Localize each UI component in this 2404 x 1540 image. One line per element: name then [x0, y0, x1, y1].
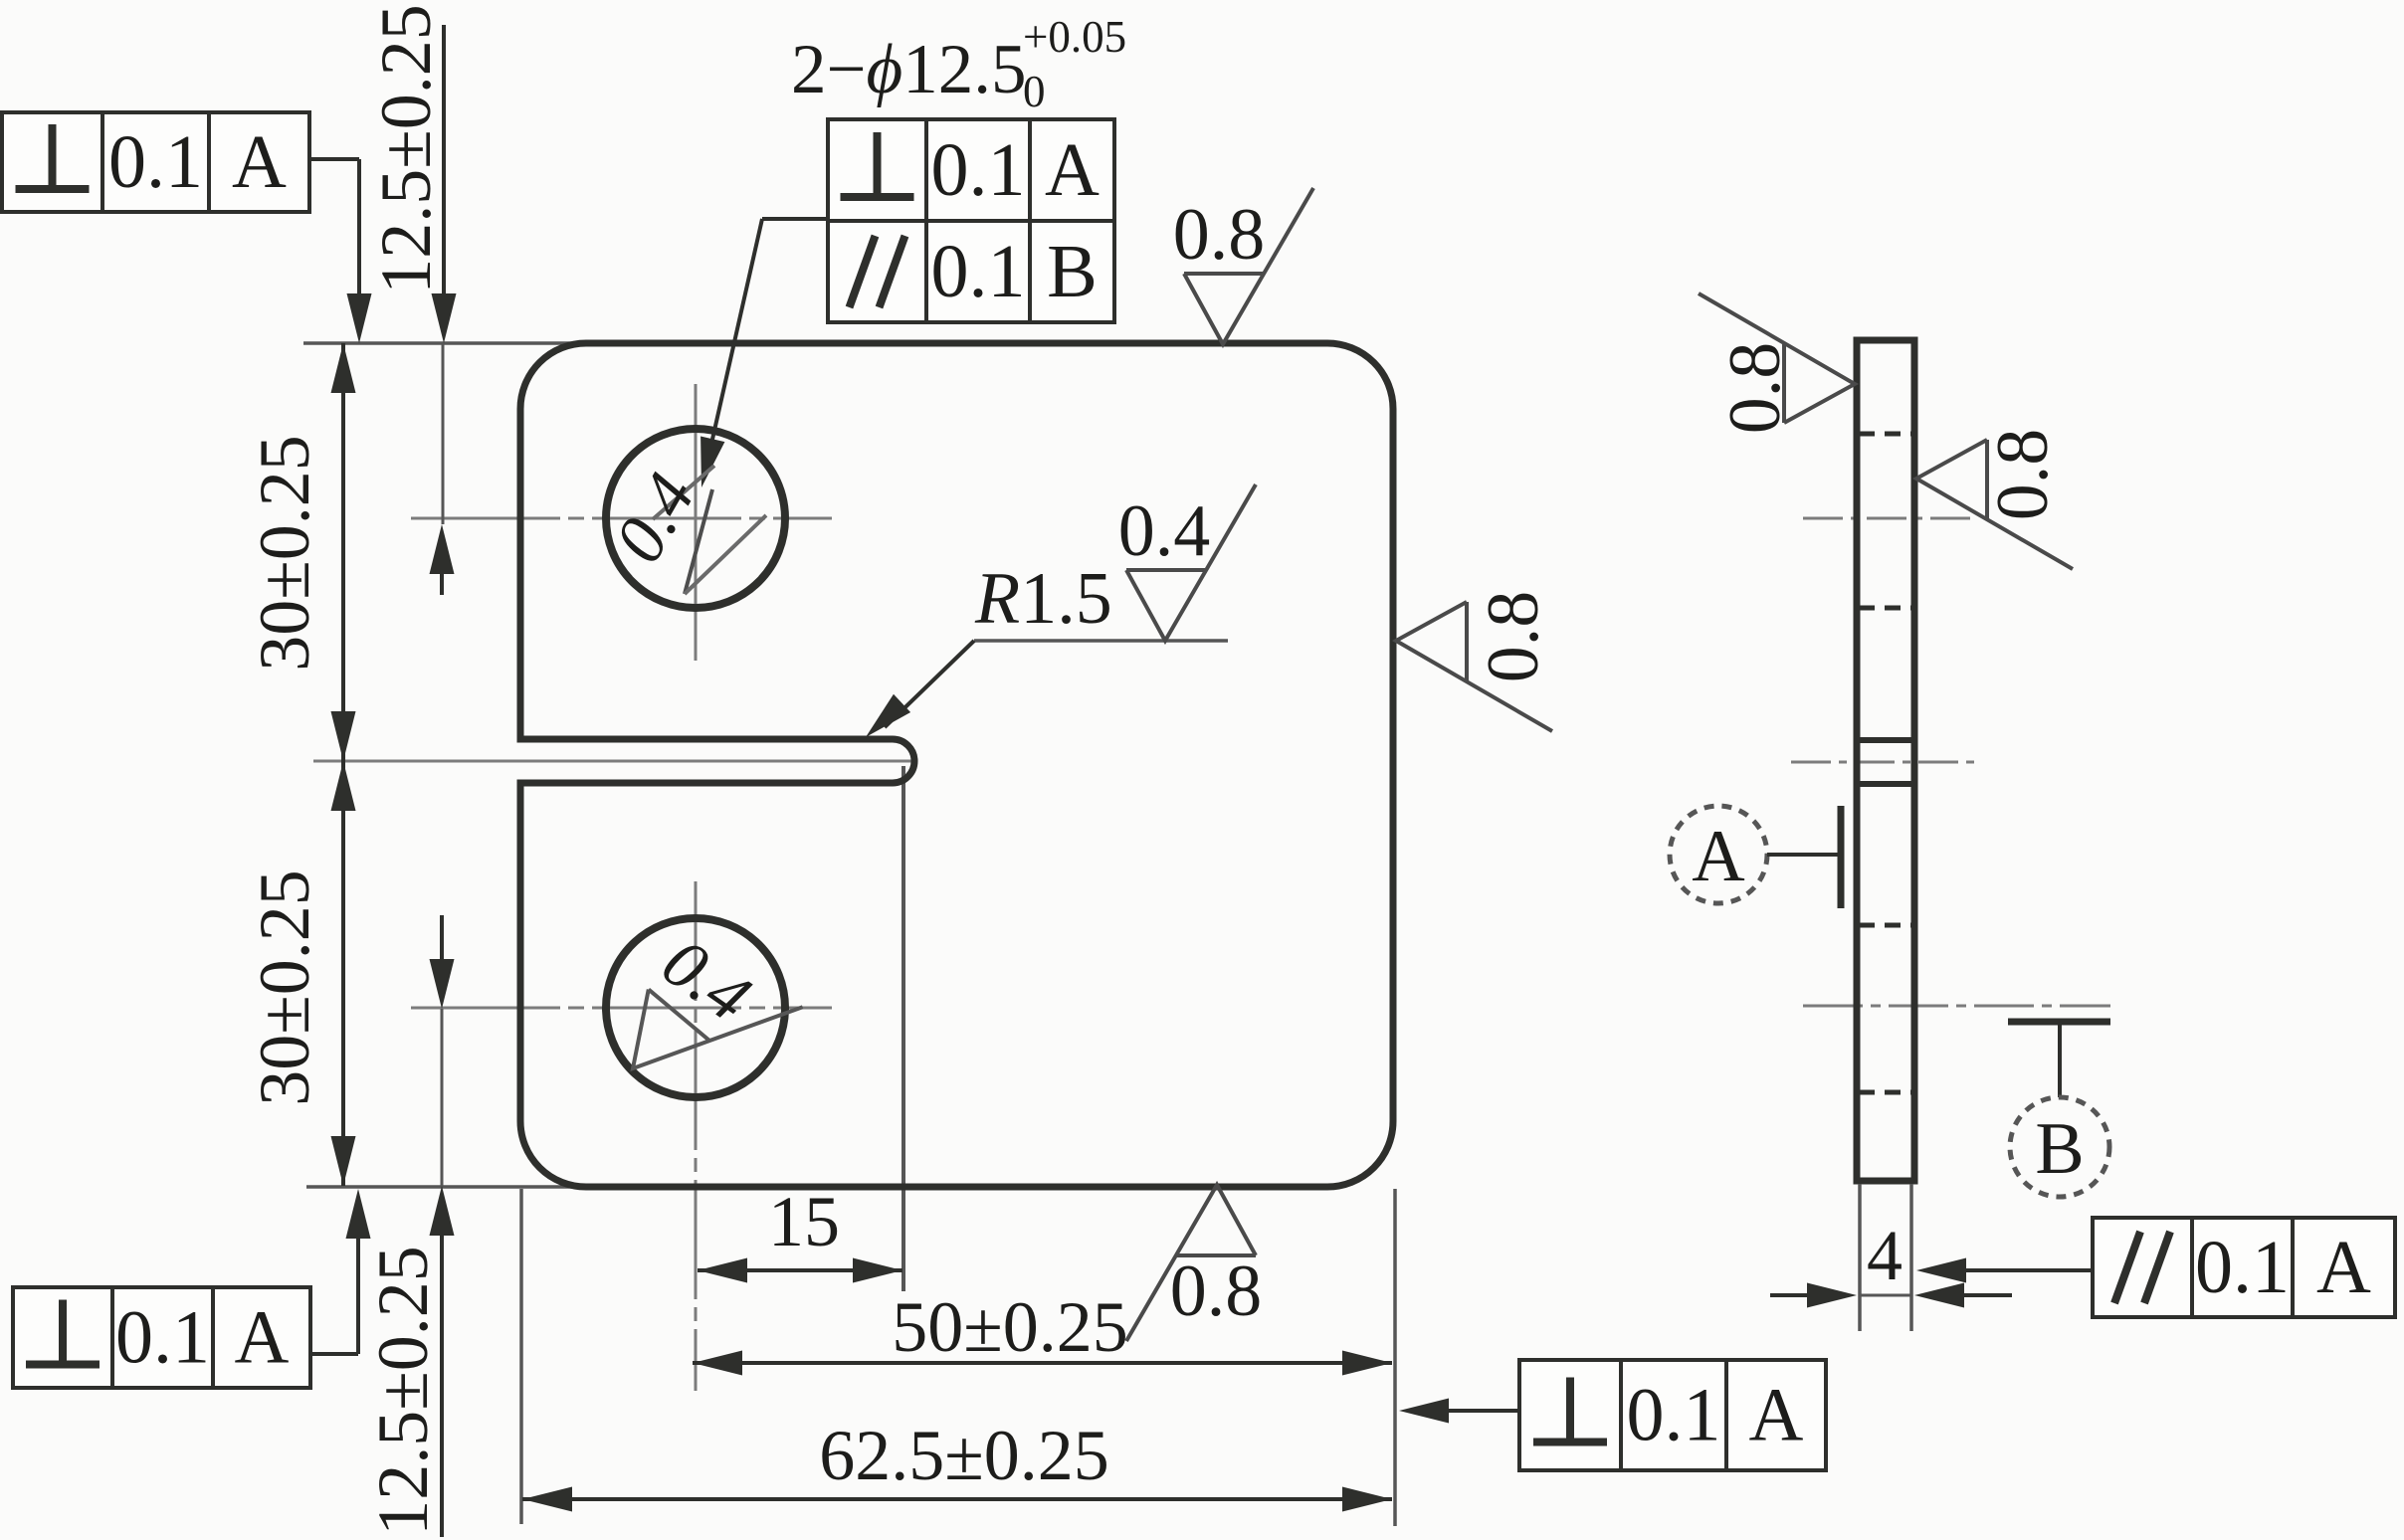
feature control frame ⊥ 0.1 A (bottom-left) — [13, 1287, 310, 1388]
svg-text:2−ϕ12.5: 2−ϕ12.5 — [791, 31, 1027, 108]
feature control frame ⊥ 0.1 A / ∥ 0.1 B (holes) — [828, 119, 1114, 322]
centerline: hole 1 vertical — [695, 384, 698, 661]
side view outline (thickness 4) — [1857, 340, 1914, 1181]
svg-text:A: A — [2316, 1226, 2371, 1309]
leader from top-left FCF to top edge — [308, 157, 359, 161]
feature control frame ∥ 0.1 A (side view, parallelism of faces) — [2093, 1218, 2395, 1317]
surface finish 0.8 (bottom edge) — [1126, 1185, 1256, 1341]
dimension 12.5±0.25 (top edge to hole 1 center) — [442, 25, 446, 295]
side view centerline hole 1 — [1803, 517, 1970, 520]
dimension 30±0.25 (top edge to slot center) — [341, 343, 345, 761]
svg-text:12.5±0.25: 12.5±0.25 — [366, 4, 446, 294]
surface finish 0.8 (top edge) — [1184, 188, 1313, 344]
hole 1 (upper, φ12.5) — [606, 429, 785, 608]
hole 2 (lower, φ12.5) — [606, 918, 785, 1097]
svg-text:0.8: 0.8 — [1173, 194, 1266, 276]
leader from bottom-left FCF to bottom edge — [310, 1352, 358, 1356]
side view hidden line: hole 1 top — [1859, 432, 1912, 437]
svg-text:A: A — [1045, 128, 1100, 212]
svg-text:0.1: 0.1 — [931, 128, 1026, 212]
leader from holes FCF to hole 1 — [762, 217, 828, 221]
svg-text:B: B — [2035, 1108, 2084, 1190]
leader from side FCF to right face extension — [1964, 1268, 2093, 1272]
extension line: bottom edge — [306, 1185, 597, 1189]
side view hidden line: hole 2 top — [1859, 923, 1912, 928]
svg-text:0.8: 0.8 — [1170, 1251, 1263, 1332]
extension line: slot tip (for 15 dim) — [901, 766, 905, 1291]
side view hidden line: hole 1 bottom — [1859, 606, 1912, 611]
svg-text:30±0.25: 30±0.25 — [245, 869, 324, 1106]
svg-text:0.1: 0.1 — [115, 1296, 210, 1380]
surface finish 0.8 (right edge) — [1396, 602, 1552, 731]
svg-text:12.5±0.25: 12.5±0.25 — [363, 1246, 443, 1536]
svg-text:A: A — [1692, 816, 1744, 897]
svg-text:0.1: 0.1 — [931, 230, 1026, 313]
extension line: top edge — [303, 341, 597, 345]
leader from bottom-right FCF to right edge extension — [1447, 1409, 1519, 1413]
side view centerline hole 2 — [1803, 1005, 2110, 1008]
feature control frame ⊥ 0.1 A (top-left) — [2, 112, 309, 212]
surface finish 0.8 (side view right face) — [1916, 440, 2073, 569]
extension lines below side view — [1858, 1184, 1862, 1331]
side view slot edges — [1857, 737, 1914, 743]
dimension 62.5±0.25 (overall width) — [522, 1497, 1392, 1501]
centerline: slot axis — [313, 760, 913, 763]
surface finish 0.4 inside hole 2 — [603, 924, 803, 1127]
svg-text:0.8: 0.8 — [1982, 429, 2064, 521]
datum A symbol (left face of side view) — [1670, 806, 1767, 903]
feature control frame ⊥ 0.1 A (bottom-right, right edge) — [1519, 1360, 1826, 1470]
svg-text:0.1: 0.1 — [2195, 1226, 2290, 1309]
svg-text:A: A — [1749, 1374, 1804, 1457]
dimension 15 (hole center to slot tip) — [698, 1268, 902, 1272]
svg-text:A: A — [235, 1296, 290, 1380]
dimension 50±0.25 (hole center to right edge) — [693, 1361, 1392, 1365]
svg-text:50±0.25: 50±0.25 — [892, 1287, 1128, 1367]
surface finish 0.4 (slot surface, on R1.5 shelf) — [1126, 484, 1256, 641]
svg-text:4: 4 — [1867, 1216, 1903, 1295]
svg-text:0.8: 0.8 — [1714, 342, 1796, 435]
svg-text:15: 15 — [768, 1182, 840, 1261]
svg-text:B: B — [1047, 230, 1098, 313]
dimension 30±0.25 (slot center to bottom edge) — [341, 761, 345, 1186]
svg-text:A: A — [232, 120, 287, 204]
datum B symbol (hole 2 axis) — [2008, 1019, 2110, 1026]
svg-text:0.1: 0.1 — [108, 120, 203, 204]
extension line: left edge (for 62.5 dim) — [519, 1189, 523, 1524]
svg-text:62.5±0.25: 62.5±0.25 — [819, 1416, 1109, 1495]
dimension 12.5±0.25 (hole 2 center to bottom edge) — [440, 915, 444, 961]
centerline: hole 1 horizontal — [411, 517, 832, 520]
dimension 4 (plate thickness) — [1770, 1293, 1809, 1297]
plate outline (front view) with slot — [520, 343, 1393, 1187]
surface finish 0.4 inside hole 1 — [685, 489, 712, 594]
centerline: hole 2 vertical — [695, 881, 698, 1391]
svg-text:30±0.25: 30±0.25 — [245, 435, 324, 672]
side view centerline slot — [1791, 761, 1975, 764]
svg-text:0.8: 0.8 — [1473, 591, 1554, 683]
svg-text:0: 0 — [1023, 67, 1046, 116]
surface finish 0.8 (side view left face) — [1699, 293, 1855, 423]
svg-text:0.4: 0.4 — [1118, 490, 1211, 572]
centerline: hole 2 horizontal — [411, 1007, 832, 1010]
extension line: right edge (for 50/62.5 dims) — [1393, 1189, 1397, 1526]
side view hidden line: hole 2 bottom — [1859, 1090, 1912, 1095]
svg-text:+0.05: +0.05 — [1023, 12, 1126, 62]
svg-text:R1.5: R1.5 — [974, 558, 1112, 640]
svg-text:0.1: 0.1 — [1627, 1374, 1721, 1457]
